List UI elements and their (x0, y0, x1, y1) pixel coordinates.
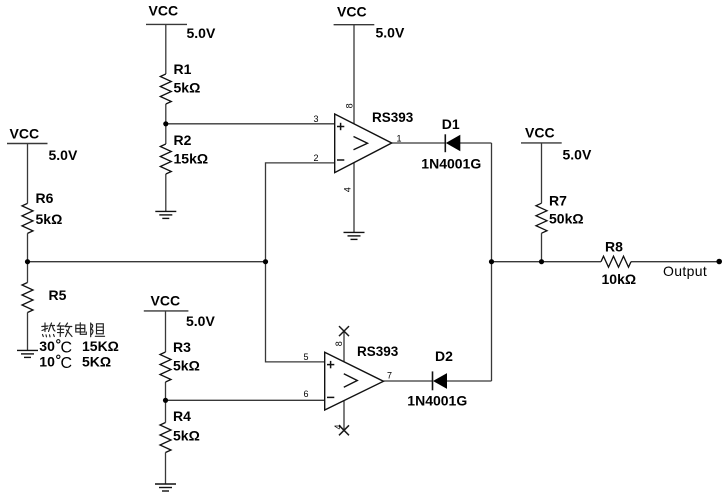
svg-text:R8: R8 (605, 239, 623, 255)
svg-text:5.0V: 5.0V (563, 147, 592, 163)
svg-text:R1: R1 (174, 61, 192, 77)
svg-text:3: 3 (314, 114, 319, 124)
svg-text:R7: R7 (549, 192, 567, 208)
svg-text:5kΩ: 5kΩ (174, 80, 201, 96)
svg-text:4: 4 (333, 424, 343, 429)
svg-text:5kΩ: 5kΩ (173, 427, 200, 443)
svg-text:5.0V: 5.0V (376, 25, 405, 41)
svg-text:5kΩ: 5kΩ (36, 211, 63, 227)
svg-text:5.0V: 5.0V (49, 147, 78, 163)
svg-text:RS393: RS393 (357, 344, 399, 359)
svg-text:R5: R5 (49, 287, 67, 303)
svg-text:Output: Output (663, 263, 707, 279)
svg-text:R4: R4 (173, 408, 191, 424)
svg-text:8: 8 (334, 341, 344, 346)
svg-text:5.0V: 5.0V (186, 313, 215, 329)
svg-text:50kΩ: 50kΩ (549, 210, 584, 226)
svg-text:6: 6 (304, 389, 309, 399)
svg-text:D2: D2 (435, 348, 453, 364)
svg-text:4: 4 (343, 187, 353, 192)
svg-text:30: 30 (39, 338, 55, 354)
svg-text:5: 5 (304, 352, 309, 362)
svg-text:VCC: VCC (151, 293, 181, 309)
svg-text:1N4001G: 1N4001G (407, 393, 467, 409)
svg-text:10: 10 (39, 354, 55, 370)
svg-text:15KΩ: 15KΩ (82, 338, 119, 354)
svg-text:RS393: RS393 (372, 110, 414, 125)
svg-text:D1: D1 (442, 116, 460, 132)
svg-text:5kΩ: 5kΩ (173, 357, 200, 373)
svg-text:VCC: VCC (10, 126, 40, 142)
svg-text:5KΩ: 5KΩ (82, 354, 111, 370)
svg-text:2: 2 (314, 153, 319, 163)
svg-text:VCC: VCC (337, 3, 367, 19)
svg-text:C: C (61, 355, 73, 372)
svg-text:8: 8 (344, 103, 354, 108)
svg-text:5.0V: 5.0V (187, 25, 216, 41)
svg-text:R3: R3 (173, 339, 191, 355)
svg-text:R2: R2 (174, 132, 192, 148)
svg-text:15kΩ: 15kΩ (174, 150, 209, 166)
svg-text:VCC: VCC (525, 125, 555, 141)
svg-text:7: 7 (387, 370, 392, 380)
svg-text:VCC: VCC (149, 2, 179, 18)
svg-text:C: C (61, 340, 73, 357)
svg-text:10kΩ: 10kΩ (602, 271, 637, 287)
svg-text:R6: R6 (36, 190, 54, 206)
svg-text:1: 1 (397, 133, 402, 143)
svg-text:1N4001G: 1N4001G (421, 156, 481, 172)
